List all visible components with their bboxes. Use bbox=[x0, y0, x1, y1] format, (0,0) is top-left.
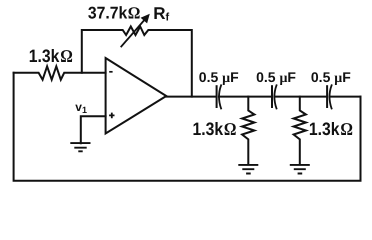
svg-text:1.3kΩ: 1.3kΩ bbox=[309, 119, 353, 139]
svg-text:0.5 μF: 0.5 μF bbox=[311, 69, 351, 86]
svg-text:1.3kΩ: 1.3kΩ bbox=[29, 46, 73, 66]
svg-text:v1: v1 bbox=[75, 100, 87, 115]
svg-text:0.5 μF: 0.5 μF bbox=[199, 69, 239, 86]
svg-text:0.5 μF: 0.5 μF bbox=[256, 69, 296, 86]
svg-text:1.3kΩ: 1.3kΩ bbox=[193, 119, 237, 139]
svg-text:Rf: Rf bbox=[153, 4, 169, 24]
svg-text:37.7kΩ: 37.7kΩ bbox=[88, 4, 140, 23]
